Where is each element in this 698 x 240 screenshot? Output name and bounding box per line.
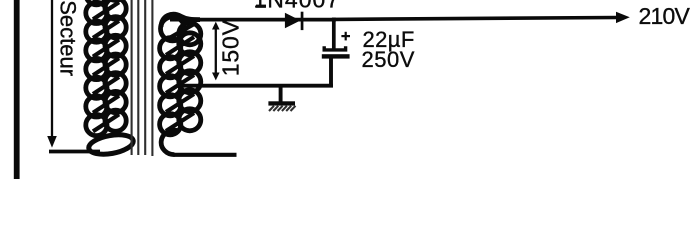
transformer secondary winding — [160, 14, 201, 135]
ground stem — [279, 87, 283, 102]
frame border left — [14, 0, 20, 179]
ground bar — [268, 101, 295, 105]
capacitor top lead — [332, 18, 336, 49]
primary winding end flourish — [87, 132, 134, 158]
svg-text:250V: 250V — [362, 47, 415, 72]
bottom wire (0V rail) — [182, 84, 333, 88]
transformer core — [132, 0, 153, 156]
plus sign — [341, 32, 350, 41]
svg-text:210V: 210V — [639, 3, 691, 29]
svg-text:Secteur: Secteur — [55, 0, 80, 76]
secondary bottom wire — [174, 153, 237, 157]
capacitor bottom lead — [329, 58, 333, 86]
svg-text:150V: 150V — [218, 19, 244, 76]
diode cathode bar — [301, 12, 304, 30]
ground hatch — [269, 106, 296, 111]
diode D — [285, 13, 301, 28]
wire primary bottom — [49, 150, 100, 154]
capacitor top plate — [324, 46, 345, 50]
transformer primary winding — [86, 0, 126, 136]
output arrowhead — [616, 12, 630, 23]
svg-text:1N4007: 1N4007 — [254, 0, 341, 13]
top wire (HT rail) — [170, 18, 336, 22]
capacitor bottom plate — [322, 54, 350, 58]
mains span arrow (Secteur) — [47, 0, 57, 148]
secondary bottom curl — [161, 130, 177, 154]
150V span arrow — [212, 22, 220, 81]
